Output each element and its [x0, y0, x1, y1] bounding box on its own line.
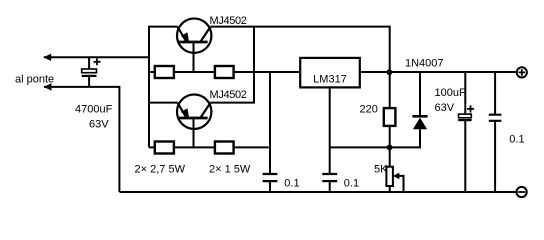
- svg-text:MJ4502: MJ4502: [210, 89, 247, 101]
- wire: row2 right segment: [234, 146, 269, 148]
- arrow: Q2 emitter (PNP): [181, 108, 189, 118]
- capacitor C1 4700uF plates: [82, 69, 97, 73]
- svg-text:0.1: 0.1: [509, 134, 524, 146]
- wire: 5K pot bottom lead: [389, 186, 391, 192]
- plus sign C4: [467, 105, 474, 112]
- svg-text:2× 1 5W: 2× 1 5W: [209, 164, 251, 176]
- capacitor C2 0.1 (LM317 input) plates: [263, 174, 278, 181]
- svg-text:1N4007: 1N4007: [405, 57, 444, 69]
- svg-text:0.1: 0.1: [284, 178, 299, 190]
- wire: bottom arrow line (al ponte -): [44, 87, 119, 192]
- wire: row2 left stub: [149, 146, 155, 148]
- svg-text:63V: 63V: [435, 102, 455, 114]
- wire: Q2 emitter stub: [149, 102, 178, 104]
- arrow: Q1 emitter (PNP): [181, 32, 189, 42]
- wire: output rail to + terminal: [390, 71, 516, 73]
- resistor R1b (1 ohm 5W): [215, 66, 234, 78]
- svg-text:220: 220: [360, 104, 378, 116]
- terminal + output: [517, 67, 527, 77]
- capacitor C5 0.1 (output) plates: [489, 115, 502, 121]
- terminal - output: [517, 187, 527, 197]
- wire: Q2 collector riser: [211, 27, 255, 103]
- svg-text:0.1: 0.1: [344, 178, 359, 190]
- wire: row1 left stub: [149, 71, 155, 73]
- wire: vertical to first 0.1 cap: [269, 72, 271, 174]
- wire: 100uF top lead: [464, 72, 466, 114]
- capacitor C3 0.1 (ADJ) plates: [322, 174, 337, 181]
- arrowhead: al ponte -: [44, 83, 52, 90]
- wire: 4700uF bottom lead: [88, 76, 90, 87]
- svg-text:63V: 63V: [89, 119, 109, 131]
- svg-text:4700uF: 4700uF: [75, 104, 113, 116]
- wire: left input vertical riser: [149, 27, 178, 148]
- wire: row1 to LM317 input: [234, 71, 301, 73]
- diode D1 1N4007: [413, 118, 427, 130]
- svg-text:LM317: LM317: [313, 74, 347, 86]
- transistor Q2 MJ4502: [177, 95, 211, 129]
- wire: bottom rail: [120, 191, 516, 193]
- transistor Q1 MJ4502: [177, 19, 211, 53]
- wire: LM317 ADJ lead down to second 0.1 cap: [329, 87, 331, 174]
- junction dot: output node: [387, 69, 393, 75]
- wire: Q2 base lead: [193, 118, 195, 147]
- wire: 220 resistor top lead: [389, 72, 391, 108]
- wire: diode cathode to output rail: [419, 72, 421, 115]
- wire: top rail from Q1 collector to output corner: [211, 27, 390, 72]
- wire: output 0.1 bottom lead: [494, 121, 496, 192]
- wire: ADJ horizontal to diode anode: [330, 129, 420, 147]
- wire: 100uF bottom lead: [464, 120, 466, 192]
- wire: Q1 base lead: [193, 42, 195, 72]
- wire: input top arrow line (al ponte +): [44, 56, 149, 58]
- svg-text:5K: 5K: [374, 163, 388, 175]
- wire: 5K pot wiper tail: [397, 176, 404, 192]
- resistor 220: [384, 108, 396, 126]
- wire: output 0.1 top lead: [494, 72, 496, 115]
- wire: LM317 output stub: [360, 71, 390, 73]
- arrowhead: al ponte +: [43, 54, 51, 61]
- wire: row1 middle segment: [174, 71, 215, 73]
- regulator U1 LM317: [300, 58, 360, 88]
- resistor R2a (2.7 ohm 5W): [155, 142, 174, 154]
- wire: 4700uF top lead: [88, 57, 90, 69]
- svg-text:al ponte: al ponte: [15, 74, 54, 86]
- plus sign C1: [94, 58, 101, 65]
- svg-text:2× 2,7 5W: 2× 2,7 5W: [135, 164, 186, 176]
- svg-text:100uF: 100uF: [435, 87, 466, 99]
- resistor R2b (1 ohm 5W): [215, 142, 234, 154]
- wire: first 0.1 bottom lead: [269, 181, 271, 192]
- resistor R1a (2.7 ohm 5W): [155, 66, 174, 78]
- wire: 220 resistor bottom lead: [389, 126, 391, 147]
- junction dot: ADJ node: [387, 145, 393, 151]
- wire: row2 middle segment: [174, 146, 215, 148]
- capacitor C4 100uF plates: [459, 114, 472, 118]
- wire: 5K pot top lead: [389, 147, 391, 166]
- wire: second 0.1 bottom lead: [329, 181, 331, 192]
- potentiometer 5K: [386, 167, 393, 186]
- svg-text:MJ4502: MJ4502: [210, 15, 247, 27]
